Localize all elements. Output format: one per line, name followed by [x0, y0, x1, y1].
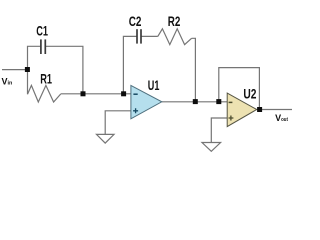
node C junction: [121, 91, 126, 96]
wire node C up and over to C2 left plate: [123, 36, 136, 93]
ground under U2: [202, 143, 221, 152]
ground under U1: [97, 134, 115, 143]
wire U2 output to Vout: [257, 109, 292, 111]
svg-text:U1: U1: [148, 77, 160, 93]
svg-text:U2: U2: [243, 86, 256, 102]
svg-text:C2: C2: [129, 13, 142, 29]
wire U1 output to U2 inverting input: [162, 101, 227, 103]
op-amp U1: [131, 85, 162, 118]
node E junction: [216, 99, 221, 104]
wire R2 down to node D on U1 output: [192, 38, 196, 102]
wire C1 right plate over and down to node B: [46, 46, 83, 94]
op-amp U1 plus pin: [133, 108, 138, 113]
capacitor C2: [137, 29, 141, 43]
node A junction: [25, 67, 30, 72]
op-amp U1 minus pin: [133, 93, 137, 95]
op-amp U2 minus pin: [229, 101, 233, 103]
wire R1 to U1 inverting input: [61, 93, 131, 95]
wire U2 non-inverting input to ground: [211, 118, 227, 143]
wire node A up and over to C1 left plate: [28, 46, 41, 69]
node F junction: [257, 107, 262, 112]
node D junction: [193, 99, 198, 104]
op-amp U2: [227, 93, 257, 127]
node B junction: [81, 91, 86, 96]
op-amp U2 plus pin: [229, 116, 234, 121]
wire C2 right plate to R2: [141, 35, 158, 37]
svg-text:C1: C1: [36, 23, 48, 39]
wire U1 non-inverting input to ground: [105, 111, 131, 135]
resistor R2: [158, 29, 192, 45]
resistor R1: [28, 85, 61, 102]
wire Vin input lead: [2, 69, 28, 71]
capacitor C1: [41, 39, 45, 54]
svg-text:R1: R1: [40, 71, 52, 87]
wire U2 feedback loop node E up over and down to node F: [219, 68, 260, 110]
svg-text:R2: R2: [168, 13, 181, 29]
wire node A down to R1: [27, 70, 29, 95]
